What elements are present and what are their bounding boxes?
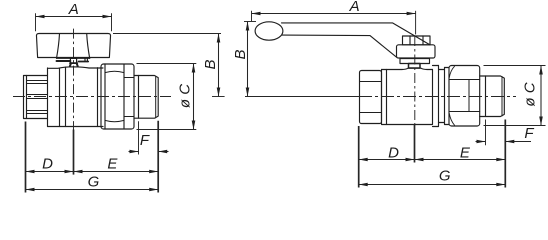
svg-text:ø C: ø C [522,82,539,106]
svg-text:F: F [524,125,534,142]
svg-text:D: D [42,155,53,172]
svg-text:F: F [140,132,150,149]
svg-text:ø C: ø C [177,84,194,108]
svg-text:D: D [388,144,399,161]
svg-text:G: G [88,174,100,191]
svg-text:A: A [349,0,360,15]
svg-text:E: E [107,155,118,172]
svg-text:B: B [202,59,219,69]
svg-text:B: B [232,49,249,59]
svg-text:A: A [68,1,79,18]
svg-text:E: E [460,144,471,161]
svg-text:G: G [439,168,451,185]
